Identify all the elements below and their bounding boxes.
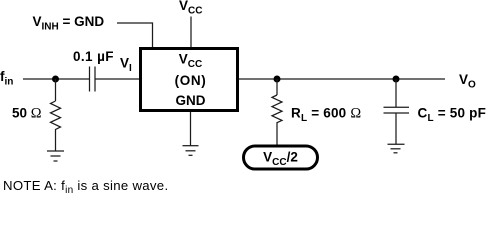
capacitor CL 50pF [384, 107, 410, 113]
ground: below CL [388, 144, 405, 153]
svg-text:GND: GND [176, 93, 206, 108]
node: junction RL [274, 76, 281, 83]
wire: junction down to CL [395, 79, 397, 107]
wire: output from box to VO [239, 78, 445, 80]
ground: below 50 ohm resistor [47, 151, 64, 161]
wire: junction down to RL [276, 79, 278, 95]
wire: CL down to ground [395, 113, 397, 144]
node: junction input [52, 76, 59, 83]
wire: box GND down to ground [190, 112, 192, 146]
wire: input from fin to capacitor [23, 78, 89, 80]
wire: capacitor to DUT box [95, 78, 140, 80]
wire: VCC supply down to box [190, 17, 192, 48]
node: junction CL [393, 76, 400, 83]
wire: RL down to VCC/2 source [276, 124, 278, 145]
wire: VINH to box top [117, 23, 153, 47]
ground: below DUT box [183, 146, 199, 156]
DUT box U1 [141, 49, 238, 111]
svg-text:50 Ω: 50 Ω [12, 106, 42, 122]
svg-text:0.1 µF: 0.1 µF [73, 49, 114, 64]
wire: resistor to ground [55, 131, 57, 151]
resistor 50 ohm [51, 101, 61, 131]
capacitor C 0.1uF (series) [90, 67, 96, 92]
svg-text:(ON): (ON) [175, 73, 207, 88]
source oval VCC/2 [244, 146, 318, 169]
wire: junction down to resistor R50 [55, 79, 57, 101]
resistor RL 600 ohm [272, 95, 282, 124]
